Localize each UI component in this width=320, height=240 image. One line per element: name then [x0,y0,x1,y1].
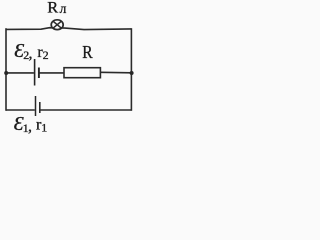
wire right vertical [130,28,132,111]
svg-text:л: л [60,1,67,16]
wire bottom left [6,109,35,111]
lamp X diagonal 2 [53,21,61,28]
svg-text:1: 1 [41,121,47,135]
wire left vertical [5,28,7,111]
resistor R box [64,68,100,78]
battery E1 short plate [39,102,41,113]
svg-text:R: R [47,0,58,17]
battery E2 long plate [34,59,36,86]
lamp RL circle [51,20,63,30]
svg-text:2: 2 [43,48,49,62]
wire middle right of battery to resistor [39,72,64,74]
svg-text:R: R [82,42,92,62]
wire top [6,28,131,30]
wire bottom right of battery [40,109,131,111]
lamp X diagonal 1 [53,21,61,28]
node left junction dot [4,71,8,75]
svg-text:,: , [29,45,33,62]
wire resistor to right [100,71,131,74]
battery E1 long plate [35,96,37,116]
battery E2 short plate [38,68,40,79]
node right junction dot [130,71,134,75]
wire middle left [6,72,34,74]
svg-text:,: , [28,118,32,135]
